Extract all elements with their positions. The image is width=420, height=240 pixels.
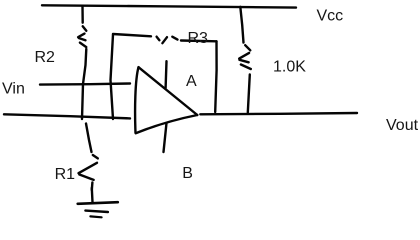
svg-text:R2: R2 (35, 49, 56, 66)
label 1.0K (273, 59, 306, 76)
svg-text:A: A (186, 73, 197, 90)
svg-text:Vout: Vout (386, 117, 419, 134)
op-amp U1 bottom power pin (164, 123, 167, 152)
wire: feedback left vertical (111, 35, 114, 120)
svg-text:B: B (182, 165, 193, 182)
resistor R2 (78, 7, 86, 120)
wire: feedback right vertical (215, 41, 216, 112)
wire: Vcc rail (42, 5, 296, 7)
label B (182, 165, 193, 182)
label Vin (2, 81, 25, 98)
wire: feedback top (113, 34, 151, 36)
svg-text:R1: R1 (55, 166, 76, 183)
label Vout (386, 117, 419, 134)
label Vcc (317, 8, 344, 25)
resistor R3 (157, 37, 217, 44)
wire: output (200, 113, 357, 114)
svg-text:R3: R3 (188, 30, 209, 47)
label R3 (188, 30, 209, 47)
op-amp U1 top power pin (164, 61, 167, 88)
label R1 (55, 166, 76, 183)
op-amp U1 (135, 67, 197, 133)
resistor R1 (79, 124, 98, 191)
label A (186, 73, 197, 90)
wire: Vin input (40, 84, 130, 85)
svg-text:Vin: Vin (2, 81, 25, 98)
svg-text:1.0K: 1.0K (273, 59, 306, 76)
svg-text:Vcc: Vcc (317, 8, 344, 25)
wire: lower input (inverting) (4, 114, 130, 118)
resistor 1.0K (239, 7, 251, 113)
ground (78, 188, 118, 217)
label R2 (35, 49, 56, 66)
